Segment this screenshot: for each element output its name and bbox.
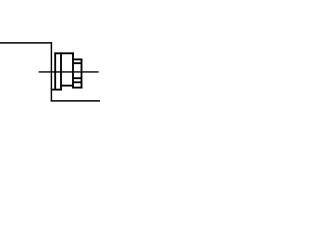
connector J1: body shell (stepped nested boxes) bbox=[51, 52, 74, 90]
connector J1: plug tip segment box with contact lines bbox=[72, 59, 82, 89]
wire: bottom horizontal net exiting right edge bbox=[51, 100, 100, 102]
wire: vertical segment from top wire down to bottom wire bbox=[50, 42, 52, 101]
wire: top-left horizontal net entering from left edge bbox=[0, 42, 52, 44]
wire: middle horizontal net (center pin) crossing the connector bbox=[39, 71, 99, 73]
